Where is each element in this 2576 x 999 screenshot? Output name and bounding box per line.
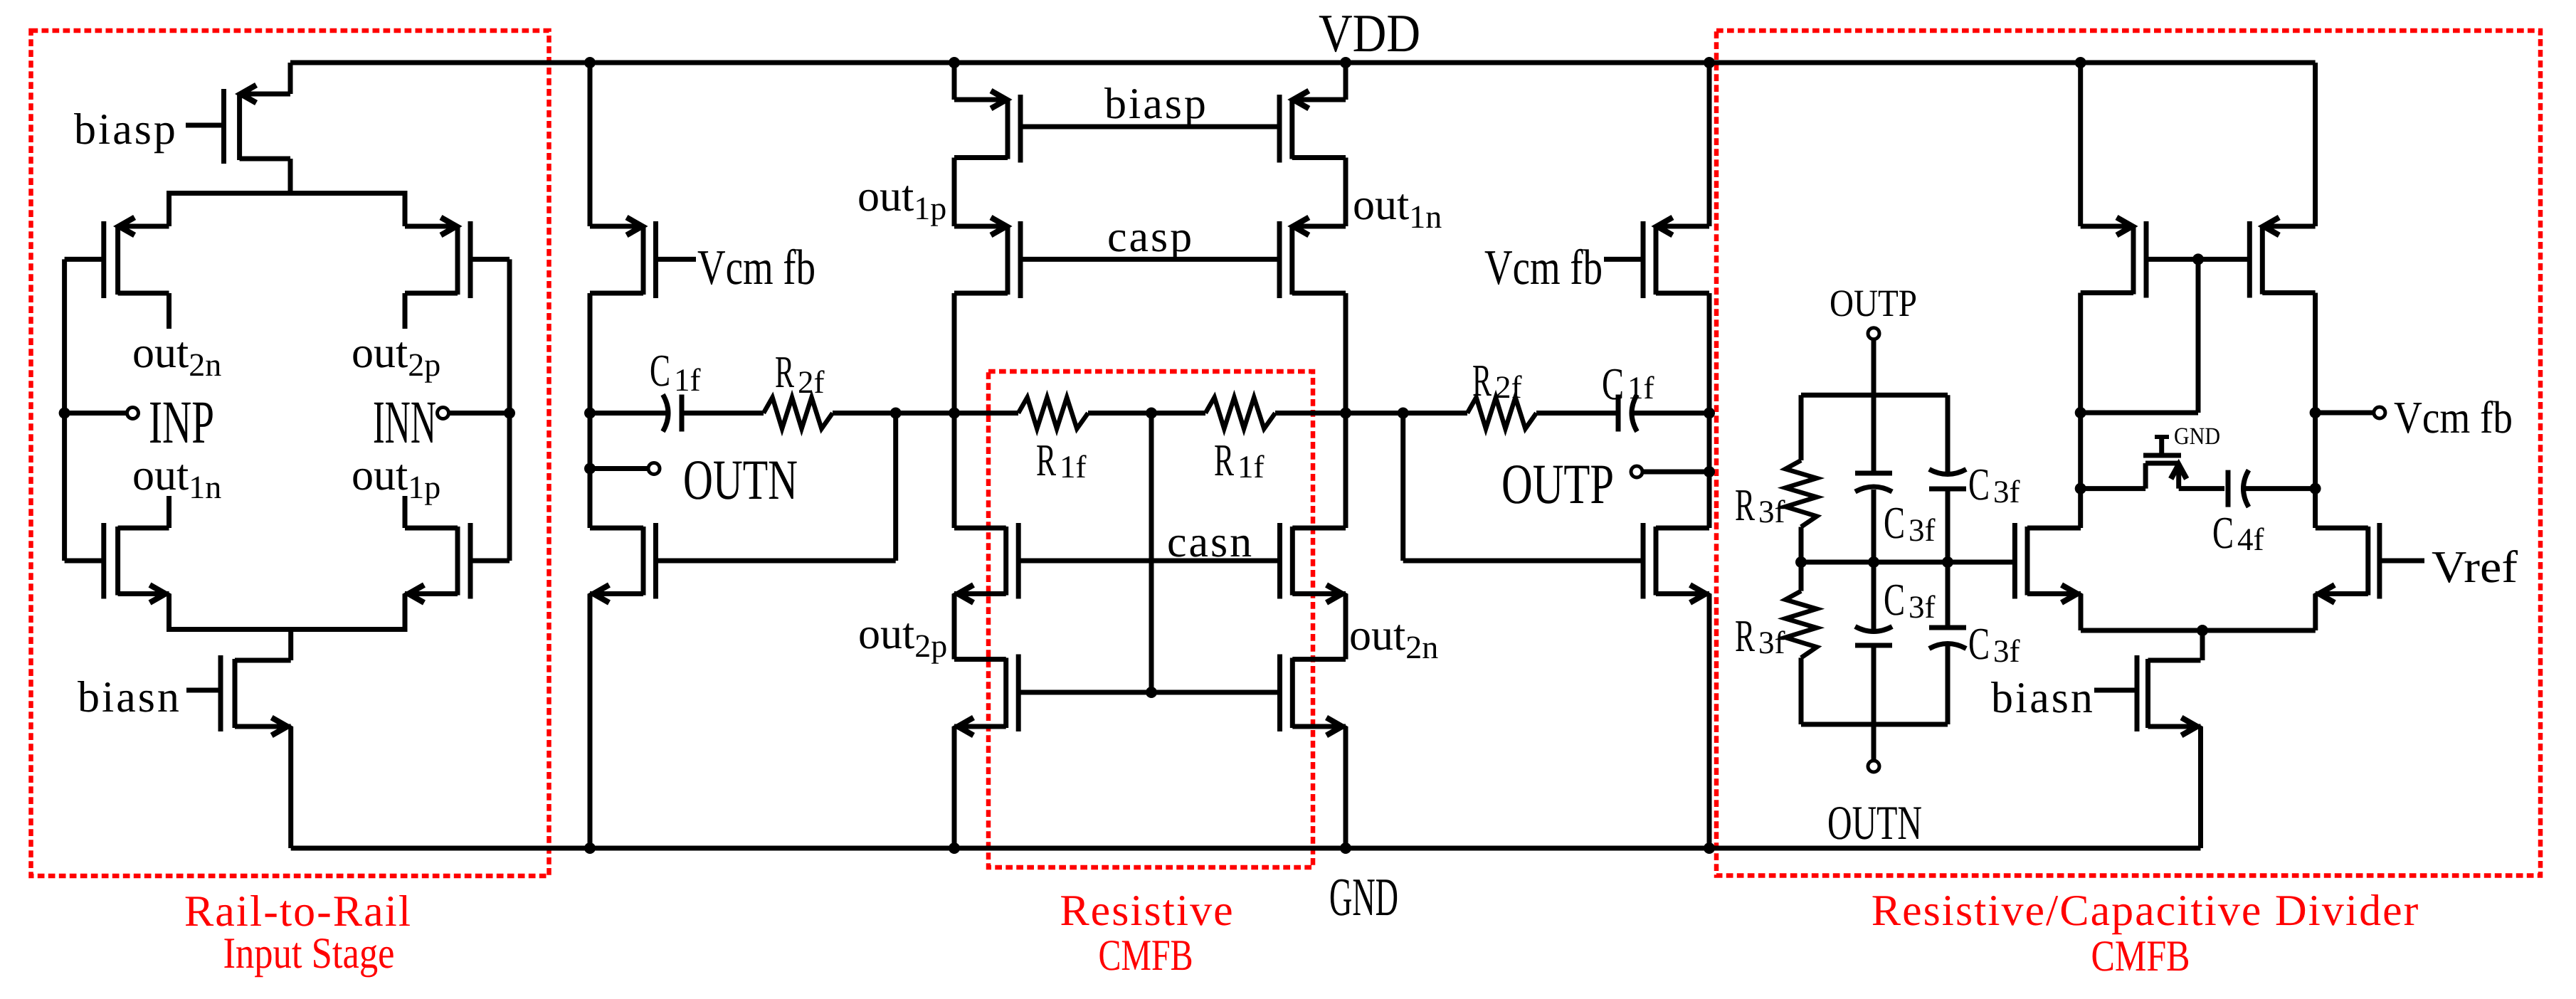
wire cascode right to GND	[1344, 726, 1348, 848]
junction INP	[59, 408, 70, 419]
label C4f	[2212, 507, 2264, 558]
svg-text:3f: 3f	[1909, 512, 1936, 548]
svg-text:INN: INN	[373, 388, 436, 456]
junction cmfb gate center	[1146, 687, 1157, 698]
svg-text:biasp: biasp	[74, 105, 178, 154]
junction mid line right	[1704, 408, 1715, 419]
svg-text:3f: 3f	[1993, 474, 2020, 509]
wire biasn2 drain	[2200, 630, 2205, 660]
junction GND cascode left	[949, 842, 960, 854]
wire OUTN stem	[1872, 724, 1876, 760]
port OUTN	[648, 463, 660, 475]
svg-text:3f: 3f	[1993, 633, 2020, 669]
svg-text:biasn: biasn	[78, 673, 181, 721]
junction cascode rail left	[949, 408, 960, 419]
label R1f left	[1036, 435, 1087, 485]
wire INP to lower gate	[65, 559, 104, 564]
wire INP tap	[65, 411, 127, 416]
mirror gate link	[2146, 257, 2249, 262]
label out1n	[1353, 181, 1442, 235]
capacitor C1f right	[1618, 395, 1637, 432]
transistor M5 PMOS Vcm fb left	[590, 218, 656, 299]
node out2n stub	[167, 293, 171, 329]
svg-text:CMFB: CMFB	[1099, 931, 1193, 980]
resistor R2f right	[1467, 398, 1536, 429]
wire right cap branch b	[1946, 562, 1951, 628]
capacitor C3f right-top	[1929, 470, 1966, 490]
dashed box: Resistive CMFB	[988, 371, 1313, 867]
label Resistive/Capacitive Divider CMFB	[1872, 887, 2420, 980]
wire out1n node	[1344, 158, 1348, 227]
transistor biasn NMOS (input stage)	[221, 655, 291, 736]
svg-text:1f: 1f	[1060, 449, 1087, 485]
transistor input NMOS right	[405, 523, 470, 603]
label out2p	[352, 329, 440, 383]
biasp gate link	[1020, 125, 1279, 129]
svg-text:Vref: Vref	[2432, 541, 2518, 592]
transistor M18 biasn NMOS right block	[2137, 655, 2201, 736]
wire mid line seg4	[1088, 411, 1205, 416]
wire OUTN tap	[590, 466, 648, 471]
svg-text:casp: casp	[1107, 213, 1194, 261]
wire diff right tail	[2313, 594, 2318, 631]
junction vcmfb out a	[2310, 407, 2321, 418]
tail line	[2081, 628, 2316, 633]
wire input PMOS pair source coupling	[169, 194, 406, 227]
label Vref	[2432, 541, 2518, 592]
M5 gate wire	[656, 257, 697, 262]
svg-text:1f: 1f	[1627, 370, 1654, 406]
wire mid cap branch b	[1872, 562, 1876, 629]
transistor M13 NMOS casn right	[1280, 523, 1346, 603]
wire biasp drain to tail	[288, 159, 293, 194]
label casp	[1107, 213, 1194, 261]
label INN	[373, 388, 436, 456]
label out2n mid	[1349, 611, 1438, 665]
wire mid line seg7	[1634, 411, 1709, 416]
wire gate tap right	[1400, 413, 1405, 561]
svg-text:OUTN: OUTN	[1827, 795, 1922, 850]
wire mirror left down	[2078, 293, 2083, 529]
label Vcm fb out	[2394, 392, 2513, 443]
wire mid line seg5	[1275, 411, 1467, 416]
INN gate rail	[507, 259, 512, 561]
junction vcmfb diode a	[2075, 407, 2086, 418]
svg-text:GND: GND	[2174, 423, 2220, 450]
label Vcm fb left	[697, 240, 815, 295]
junction GND left branch	[584, 842, 596, 854]
wire out2p node	[952, 594, 957, 660]
biasn gate wire	[186, 688, 221, 693]
wire right branch upper	[1707, 63, 1712, 226]
node out2p stub	[403, 293, 408, 329]
GND label	[1329, 867, 1398, 927]
M19 gate wire	[2380, 559, 2424, 564]
svg-text:C: C	[2212, 507, 2234, 558]
transistor M15 PMOS Vcm fb right	[1643, 218, 1709, 299]
wire left branch lower to GND	[588, 594, 593, 849]
transistor biasp PMOS (input stage)	[224, 85, 291, 164]
label out1p	[352, 451, 440, 505]
M16 gate wire	[1403, 559, 1643, 564]
wire out2n node	[1344, 594, 1348, 660]
wire right cap branch bottom	[1946, 646, 1951, 724]
junction mid line left	[584, 408, 596, 419]
wire mid line seg2	[682, 411, 764, 416]
junction center tap	[1146, 408, 1157, 419]
wire R3f branch bottom	[1799, 657, 1804, 724]
label R1f right	[1214, 435, 1265, 485]
svg-text:3f: 3f	[1758, 494, 1785, 529]
transistor M17 NMOS diff left	[2015, 523, 2081, 603]
junction tail	[2197, 625, 2208, 636]
junction c4f line b	[2310, 483, 2321, 495]
svg-text:GND: GND	[1329, 867, 1398, 927]
svg-text:OUTP: OUTP	[1501, 453, 1614, 516]
resistor R1f left	[1018, 398, 1088, 429]
svg-text:R: R	[1735, 610, 1755, 661]
svg-text:R: R	[1735, 480, 1755, 530]
label out1n	[132, 451, 221, 505]
wire R3f mid	[1799, 527, 1804, 591]
wire center tap	[1149, 413, 1154, 693]
wire mirror right down	[2313, 293, 2318, 529]
divider bottom line	[1801, 722, 1948, 727]
transistor M11 NMOS casn left	[954, 523, 1018, 603]
svg-text:R: R	[1472, 355, 1492, 406]
svg-text:Resistive: Resistive	[1060, 887, 1234, 935]
svg-text:C: C	[1968, 459, 1990, 509]
svg-text:3f: 3f	[1909, 589, 1936, 625]
wire OUTP tap	[1643, 470, 1709, 475]
wire INN to upper gate	[470, 257, 510, 262]
svg-text:INP: INP	[149, 388, 214, 456]
capacitor C3f mid-top	[1855, 473, 1892, 492]
svg-text:Vcm fb: Vcm fb	[2394, 392, 2513, 443]
junction VDD left branch	[584, 57, 596, 68]
divider top line	[1801, 393, 1948, 398]
label C1f right	[1602, 359, 1654, 409]
transistor M14 NMOS cmfb right	[1280, 655, 1346, 736]
label R3f upper	[1735, 480, 1785, 530]
M6 gate wire	[656, 559, 896, 564]
svg-text:VDD: VDD	[1319, 4, 1420, 63]
transistor M7 PMOS biasp left	[954, 91, 1020, 163]
wire INN tap	[449, 411, 510, 416]
label OUTP divider	[1830, 282, 1917, 324]
wire biasn source to GND	[288, 726, 293, 848]
junction gate tap right	[1398, 408, 1409, 419]
junction c4f line a	[2075, 483, 2086, 495]
transistor M12 NMOS cmfb left	[954, 655, 1018, 736]
junction OUTN tap	[584, 463, 596, 475]
svg-text:Input Stage: Input Stage	[223, 929, 395, 978]
svg-text:3f: 3f	[1758, 625, 1785, 660]
junction gate tap left	[890, 408, 902, 419]
transistor M21 PMOS mirror right	[2249, 218, 2315, 298]
capacitor C1f left	[663, 395, 682, 432]
junction divider mid b	[1942, 556, 1953, 568]
wire right branch lower to GND	[1707, 594, 1712, 849]
transistor input PMOS right (INN)	[405, 218, 470, 299]
junction GND cascode right	[1340, 842, 1351, 854]
wire mid line seg6	[1536, 411, 1616, 416]
svg-text:C: C	[650, 345, 670, 396]
wire cascode right top	[1344, 63, 1348, 100]
port OUTP divider	[1868, 328, 1879, 339]
svg-text:R: R	[775, 347, 794, 397]
svg-text:C: C	[1602, 359, 1624, 409]
label casn	[1167, 518, 1254, 566]
label out1p	[857, 172, 946, 226]
cmfb gate link	[1018, 690, 1279, 695]
svg-text:1f: 1f	[1237, 449, 1265, 485]
svg-text:Vcm fb: Vcm fb	[697, 240, 815, 295]
wire INP to upper gate	[65, 257, 104, 262]
label OUTN divider	[1827, 795, 1922, 850]
wire cascode right down	[1344, 293, 1348, 528]
port OUTP	[1631, 466, 1642, 477]
wire c4f line seg2	[2179, 486, 2224, 491]
wire biasp source to VDD	[288, 63, 293, 94]
VDD rail	[290, 60, 2316, 65]
port OUTN divider	[1868, 761, 1879, 772]
M15 gate wire	[1604, 257, 1643, 262]
label INP	[149, 388, 214, 456]
transistor MOS-cap gate-GND	[2143, 437, 2187, 489]
wire left branch mid	[588, 293, 593, 528]
wire right cap branch top	[1946, 395, 1951, 472]
wire left branch upper	[588, 63, 593, 226]
svg-text:1f: 1f	[674, 362, 701, 398]
wire biasn2 source to GND	[2198, 726, 2203, 848]
wire mid line seg1	[590, 411, 666, 416]
transistor M10 PMOS casp right	[1279, 218, 1346, 299]
svg-text:R: R	[1036, 435, 1056, 485]
dashed box: Rail-to-Rail Input Stage	[31, 31, 549, 876]
transistor input PMOS left (INP)	[104, 218, 169, 299]
label GND small	[2174, 423, 2220, 450]
junction GND right branch	[1704, 842, 1715, 854]
wire mirror gate down	[2196, 259, 2201, 413]
transistor M8 PMOS casp left	[954, 218, 1020, 299]
wire mid line seg3	[833, 411, 1018, 416]
label R2f right	[1472, 355, 1522, 406]
wire OUTP stem	[1872, 339, 1876, 395]
junction VDD right branch	[1704, 57, 1715, 68]
junction VDD cascode left	[949, 57, 960, 68]
wire vcmfb out	[2316, 411, 2373, 416]
transistor M9 PMOS biasp right	[1279, 91, 1346, 163]
wire cascode left top	[952, 63, 957, 100]
port INN	[438, 408, 449, 419]
junction cascode rail right	[1340, 408, 1351, 419]
casn gate link	[1018, 559, 1279, 564]
label Resistive CMFB	[1060, 887, 1234, 980]
biasp gate wire	[186, 123, 224, 128]
label biasp mid	[1104, 80, 1208, 128]
label Rail-to-Rail Input Stage	[184, 887, 412, 978]
label Vcm fb right	[1484, 240, 1603, 295]
junction mirror gate	[2192, 253, 2204, 265]
wire R3f branch top	[1799, 395, 1804, 460]
transistor M16 NMOS output right	[1643, 523, 1709, 603]
svg-text:Rail-to-Rail: Rail-to-Rail	[184, 887, 412, 936]
biasn2 gate wire	[2094, 688, 2137, 693]
svg-text:biasp: biasp	[1104, 80, 1208, 128]
junction OUTP tap	[1704, 466, 1715, 477]
svg-text:R: R	[1214, 435, 1234, 485]
resistor R2f left	[764, 398, 833, 429]
capacitor C3f mid-bottom	[1855, 627, 1892, 646]
svg-text:Resistive/Capacitive Divider: Resistive/Capacitive Divider	[1872, 887, 2420, 935]
capacitor C4f	[2228, 470, 2249, 507]
label out2n	[132, 329, 221, 383]
label OUTP	[1501, 453, 1614, 516]
resistor R3f lower	[1785, 591, 1817, 658]
wire diff left tail	[2079, 594, 2084, 631]
svg-text:biasn: biasn	[1991, 674, 2095, 722]
label C1f left	[650, 345, 701, 398]
port Vcm fb out	[2374, 407, 2385, 418]
wire c4f line seg1	[2081, 486, 2145, 491]
svg-text:Vcm fb: Vcm fb	[1484, 240, 1603, 295]
svg-text:C: C	[1884, 574, 1905, 625]
svg-text:OUTN: OUTN	[683, 449, 798, 512]
wire cascode left to GND	[952, 726, 957, 848]
casp gate link	[1020, 257, 1279, 262]
resistor R3f upper	[1785, 460, 1817, 527]
junction VDD cascode right	[1340, 57, 1351, 68]
label R2f left	[775, 347, 825, 400]
VDD label	[1319, 4, 1420, 63]
svg-text:casn: casn	[1167, 518, 1254, 566]
wire vcmfb diode	[2081, 411, 2198, 416]
svg-text:2f: 2f	[1495, 369, 1522, 405]
wire mid cap branch top	[1872, 395, 1876, 471]
label biasn right	[1991, 674, 2095, 722]
wire cascode left down	[952, 293, 957, 528]
label out2p mid	[858, 610, 947, 664]
wire INN to lower gate	[470, 559, 510, 564]
label C3f right-bottom	[1968, 618, 2020, 669]
node out1n stub	[167, 496, 171, 528]
wire right branch mid	[1707, 293, 1712, 528]
wire mirror left top	[2078, 63, 2083, 226]
svg-text:C: C	[1968, 618, 1990, 669]
wire NMOS pair source coupling	[169, 594, 406, 630]
wire right cap branch a	[1946, 489, 1951, 562]
label C3f mid-top	[1884, 497, 1936, 548]
divider mid node line	[1801, 560, 2015, 565]
wire biasn drain	[288, 630, 293, 661]
label biasn	[78, 673, 181, 721]
junction divider mid a	[1868, 556, 1879, 568]
GND rail	[291, 846, 2201, 851]
junction R3f mid node	[1795, 556, 1807, 568]
transistor M6 NMOS output left	[590, 523, 656, 603]
wire VDD corner right	[2313, 63, 2318, 226]
label R3f lower	[1735, 610, 1785, 661]
wire c4f line seg3	[2246, 486, 2316, 491]
dashed box: Resistive/Capacitive Divider CMFB	[1716, 31, 2540, 876]
label C3f mid-bottom	[1884, 574, 1936, 625]
capacitor C3f right-bottom	[1929, 628, 1966, 649]
label OUTN	[683, 449, 798, 512]
svg-text:2f: 2f	[798, 364, 825, 400]
svg-text:4f: 4f	[2237, 522, 2264, 557]
transistor input NMOS left	[104, 523, 169, 603]
junction VDD mirror left	[2075, 57, 2086, 68]
INP gate rail	[62, 259, 67, 561]
wire out1p node	[952, 158, 957, 227]
node out1p stub	[403, 496, 408, 528]
junction INN	[504, 408, 515, 419]
svg-text:C: C	[1884, 497, 1905, 548]
wire gate tap left	[893, 413, 898, 561]
label C3f right-top	[1968, 459, 2020, 509]
transistor M20 PMOS mirror left	[2081, 218, 2146, 298]
label biasp	[74, 105, 178, 154]
wire mid cap branch a	[1872, 490, 1876, 562]
transistor M19 NMOS diff right (Vref)	[2316, 523, 2380, 603]
port INP	[127, 408, 139, 419]
svg-text:OUTP: OUTP	[1830, 282, 1917, 324]
resistor R1f right	[1205, 398, 1275, 429]
svg-text:CMFB: CMFB	[2091, 932, 2190, 980]
wire mid cap branch bottom	[1872, 645, 1876, 724]
